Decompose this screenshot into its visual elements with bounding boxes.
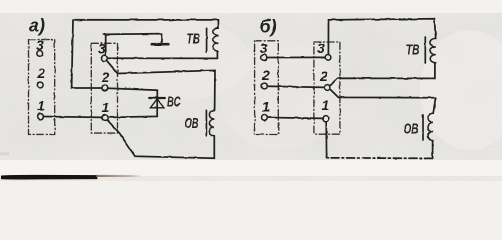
terminal 2 circle (X3) xyxy=(262,83,268,89)
wire X3-2 to X4-2 xyxy=(267,86,324,87)
wire up to X4-1 xyxy=(325,122,327,158)
svg-text:1: 1 xyxy=(37,98,45,114)
terminal 3 circle (X3) xyxy=(261,55,267,61)
tap bracket horizontal xyxy=(103,34,162,44)
terminal 2 circle (X4) xyxy=(325,85,331,91)
wire X2-3 right to TB winding bottom xyxy=(108,51,218,58)
svg-text:2: 2 xyxy=(101,69,110,85)
terminal 1 circle (X3) xyxy=(262,115,268,121)
terminal block X4 (dash-dot box, right) xyxy=(314,42,340,134)
svg-text:б): б) xyxy=(260,17,277,37)
wire X2-3 up to tap bracket xyxy=(105,35,107,56)
winding OV core bar xyxy=(205,110,207,135)
winding OV coil arcs xyxy=(209,111,214,136)
terminal 2 circle (X2) xyxy=(102,85,108,91)
terminal 2 circle (X1) xyxy=(37,82,43,88)
winding TB core bar xyxy=(206,28,208,52)
wire X4-2 fork lower to OV(b) top xyxy=(331,90,436,114)
winding TB(b) coil arcs xyxy=(430,38,436,62)
svg-text:ТВ: ТВ xyxy=(187,31,201,48)
terminal 3 circle (X2) xyxy=(102,55,108,61)
terminal 3 circle (X1) xyxy=(37,51,43,57)
wire X2-2 right to diode VS xyxy=(108,88,157,97)
svg-text:3: 3 xyxy=(98,40,106,56)
svg-text:1: 1 xyxy=(102,99,110,115)
svg-text:ВС: ВС xyxy=(167,93,181,110)
wire TB top to loop over blocks xyxy=(72,20,219,88)
svg-text:3: 3 xyxy=(317,40,325,56)
paper background xyxy=(0,0,502,181)
winding OV(b) coil arcs xyxy=(428,113,433,140)
terminal block X3 (dash-dot box, left) xyxy=(255,41,279,135)
svg-text:3: 3 xyxy=(36,37,44,53)
scan artifact: faded line continuing right xyxy=(96,175,140,177)
wire OV(b) bottom down xyxy=(432,141,434,159)
svg-text:ОВ: ОВ xyxy=(185,115,199,132)
wire X3-1 to X4-1 xyxy=(267,117,323,120)
wire X4-3 up and over to TB winding top xyxy=(328,19,435,55)
diode VS cathode bar xyxy=(149,97,165,99)
terminal 1 circle (X1) xyxy=(38,114,44,120)
svg-text:1: 1 xyxy=(262,99,270,115)
winding OV(b) core bar xyxy=(422,115,424,140)
tap end bar xyxy=(152,43,169,46)
faint smudge left edge xyxy=(0,153,9,156)
diode VS anode wire to X2-1 xyxy=(108,99,157,118)
terminal block X2 (dash-dot box, middle) xyxy=(91,43,117,133)
svg-text:2: 2 xyxy=(37,65,46,81)
scan artifact: dark band bottom left xyxy=(1,175,98,180)
svg-text:ОВ: ОВ xyxy=(404,120,419,137)
wire OV top to X2-3 diagonal xyxy=(107,60,216,110)
wire bottom dash-dot return line xyxy=(327,157,433,160)
svg-text:а): а) xyxy=(29,16,45,36)
wire X1-1 to X2-1 xyxy=(43,116,102,119)
terminal 1 circle (X2) xyxy=(102,115,108,121)
svg-text:2: 2 xyxy=(261,67,270,83)
svg-text:2: 2 xyxy=(319,68,328,84)
wire X2-1 diagonal to bottom xyxy=(108,120,215,158)
winding TB(b) core bar xyxy=(424,37,426,63)
svg-text:1: 1 xyxy=(322,97,330,113)
svg-text:3: 3 xyxy=(260,40,268,56)
terminal block X1 (dash-dot box, left) xyxy=(29,40,55,135)
svg-text:ТВ: ТВ xyxy=(406,42,420,59)
diode VS triangle xyxy=(150,99,164,108)
wire X3-3 to X4-3 xyxy=(267,56,325,58)
terminal 3 circle (X4) xyxy=(325,55,331,61)
terminal 1 circle (X4) xyxy=(323,116,329,122)
wire TB(b) bottom to X4-2 fork upper xyxy=(331,63,435,86)
winding TB coil arcs xyxy=(213,28,219,52)
